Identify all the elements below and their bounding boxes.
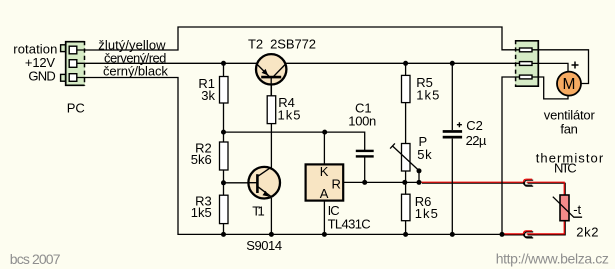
svg-text:22µ: 22µ (466, 133, 487, 148)
svg-text:fan: fan (560, 121, 578, 136)
svg-text:S9014: S9014 (246, 238, 282, 253)
svg-text:K: K (320, 164, 329, 179)
svg-text:bcs 2007: bcs 2007 (10, 251, 61, 267)
svg-text:3k: 3k (201, 88, 215, 103)
svg-text:PC: PC (67, 101, 85, 116)
svg-text:TL431C: TL431C (328, 217, 371, 232)
svg-text:černý/black: černý/black (103, 63, 168, 78)
svg-text:ventilátor: ventilátor (544, 107, 596, 122)
svg-text:1k5: 1k5 (278, 108, 301, 123)
svg-text:NTC: NTC (554, 161, 577, 176)
svg-text:2k2: 2k2 (576, 224, 598, 239)
svg-text:A: A (320, 186, 329, 201)
svg-text:http://www.belza.cz: http://www.belza.cz (496, 250, 609, 266)
svg-text:1k5: 1k5 (191, 205, 212, 220)
svg-text:M: M (563, 76, 576, 93)
svg-text:1k5: 1k5 (416, 87, 439, 102)
svg-text:R: R (332, 176, 341, 191)
svg-text:-t: -t (573, 202, 581, 217)
svg-text:1k5: 1k5 (415, 206, 438, 221)
svg-text:5k: 5k (417, 147, 432, 162)
svg-text:5k6: 5k6 (191, 152, 212, 167)
svg-text:T2 2SB772: T2 2SB772 (248, 36, 316, 51)
svg-text:T1: T1 (252, 203, 265, 218)
svg-text:GND: GND (28, 68, 55, 83)
svg-text:100n: 100n (348, 113, 376, 128)
svg-text:C2: C2 (466, 118, 483, 133)
